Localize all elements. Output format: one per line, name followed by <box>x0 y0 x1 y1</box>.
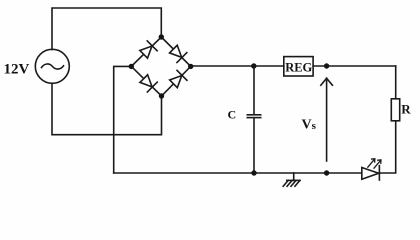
ground hatch lines <box>283 180 300 186</box>
svg-text:Vs: Vs <box>302 117 317 132</box>
capacitor C1 plates <box>247 114 260 116</box>
wire resistor bottom to LED cathode <box>379 121 395 173</box>
wire bridge left node to bottom rail <box>114 66 132 173</box>
node left of bridge <box>129 64 134 69</box>
regulator U1 REG box <box>284 57 313 76</box>
ground bar <box>287 179 300 181</box>
diode D3 (left node to bottom node) <box>140 75 157 92</box>
LED D5 triangle <box>362 168 379 180</box>
resistor R1 body <box>391 99 399 121</box>
Vs arrow shaft <box>326 78 328 161</box>
LED emission arrow 2 <box>374 160 381 168</box>
diode D2 (top node to right node) <box>170 45 187 62</box>
ground stub <box>293 173 295 180</box>
svg-text:R: R <box>401 102 411 117</box>
wire top rail from source to bridge top <box>52 8 161 50</box>
AC source V1 12V <box>35 49 69 83</box>
wire REG output to top-right corner <box>313 65 396 67</box>
bridge rectifier diamond <box>131 37 190 96</box>
node bottom of bridge <box>159 93 164 98</box>
LED D5 cathode bar <box>378 166 380 180</box>
diode D4 (bottom node to right node) <box>170 70 187 87</box>
capacitor C1 bottom lead <box>253 118 255 173</box>
node capacitor top junction <box>251 63 256 68</box>
wire right branch down to resistor <box>395 66 397 99</box>
wire bridge right node to REG input <box>191 65 284 67</box>
svg-text:C: C <box>228 108 237 122</box>
node right of bridge <box>188 64 193 69</box>
LED emission arrow 1 <box>368 159 375 167</box>
Vs arrow head <box>321 78 333 85</box>
svg-text:REG: REG <box>285 60 312 74</box>
capacitor C1 top lead <box>253 66 255 114</box>
sine symbol inside source <box>42 64 64 69</box>
node capacitor bottom junction <box>251 170 256 175</box>
node REG output junction <box>324 63 329 68</box>
diode D1 (left node to top node) <box>140 41 157 58</box>
svg-text:12V: 12V <box>4 61 30 77</box>
wire source bottom return to bridge bottom <box>52 83 162 134</box>
node top of bridge <box>159 34 164 39</box>
wire bottom rail (negative) <box>114 172 362 174</box>
node Vs bottom junction <box>324 170 329 175</box>
